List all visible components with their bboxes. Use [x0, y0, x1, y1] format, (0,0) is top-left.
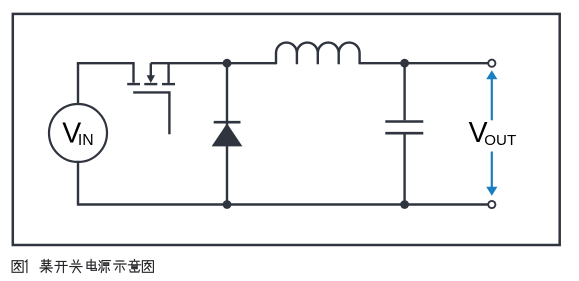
1	[25, 260, 27, 272]
开 (kai)	[55, 261, 67, 272]
意 (yi)	[128, 259, 140, 272]
svg-text:OUT: OUT	[484, 132, 516, 149]
transistor Q1 (MOSFET)	[127, 63, 175, 134]
output terminal bottom	[488, 201, 495, 208]
arrow up (Vout top)	[486, 70, 497, 120]
wire: top rail from MOSFET to inductor	[151, 62, 276, 64]
label VIN	[62, 118, 93, 150]
label VOUT	[469, 117, 517, 149]
源 (yuan)	[99, 261, 111, 273]
junction top diode	[223, 59, 232, 68]
svg-text:IN: IN	[78, 132, 94, 149]
body arrow shaft	[150, 63, 152, 77]
body bar	[144, 83, 157, 85]
diode cathode bar	[214, 121, 241, 124]
wire: Vin bottom vertical	[78, 161, 488, 205]
图 (tu) second	[142, 261, 153, 273]
示 (shi)	[114, 261, 126, 272]
diode D1 triangle	[212, 123, 243, 146]
某 (mou)	[40, 259, 52, 272]
voltage source VIN circle	[49, 104, 107, 162]
output terminal top	[488, 60, 495, 67]
drain stub	[167, 63, 169, 83]
capacitor C1 top lead	[403, 63, 405, 120]
图 (tu)	[12, 261, 23, 273]
arrow down (Vout bottom)	[486, 152, 497, 196]
frame border	[13, 14, 560, 245]
wire: Vin top vertical	[77, 63, 79, 104]
source bar	[127, 83, 140, 85]
inductor L1	[276, 43, 360, 65]
wire: top-left horizontal to MOSFET source	[77, 63, 134, 83]
caption: 图1 某开关电源示意图	[12, 259, 153, 272]
junction bottom capacitor	[400, 200, 409, 209]
junction top capacitor	[400, 59, 409, 68]
capacitor bottom lead	[403, 134, 405, 204]
capacitor plates	[385, 122, 423, 134]
body arrow head	[147, 75, 155, 83]
junction bottom diode	[223, 200, 232, 209]
关 (guan)	[70, 260, 82, 273]
wire: top rail from inductor to output terminal	[360, 62, 488, 64]
电 (dian)	[87, 259, 96, 270]
diode D1 branch wire	[226, 63, 228, 204]
gate electrode	[133, 91, 169, 134]
drain bar	[162, 83, 175, 85]
